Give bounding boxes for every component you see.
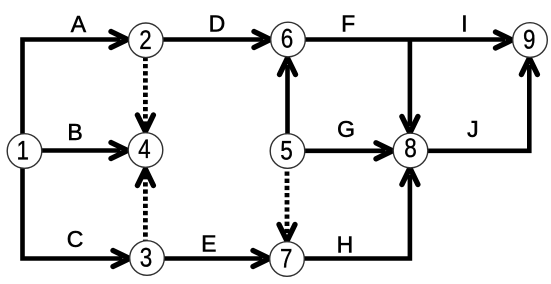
arrowhead into node 2: [111, 32, 128, 48]
svg-text:J: J: [467, 116, 479, 142]
svg-text:A: A: [71, 11, 87, 37]
svg-text:H: H: [337, 232, 354, 258]
arrowhead into node 6 bottom: [280, 58, 296, 75]
svg-text:1: 1: [16, 135, 29, 165]
svg-text:5: 5: [280, 135, 293, 165]
svg-text:E: E: [201, 231, 216, 257]
wire branch from F line down to 8: [408, 40, 413, 127]
arrowhead into node 4: [111, 143, 128, 159]
wire 1 to 4 (activity B): [40, 148, 121, 153]
dummy wire 2 to 4 (dotted): [143, 57, 148, 126]
svg-text:8: 8: [404, 133, 417, 163]
svg-text:7: 7: [280, 244, 293, 274]
arrowhead into node 4 bottom: [137, 169, 153, 186]
svg-text:2: 2: [139, 25, 152, 55]
svg-text:I: I: [461, 11, 467, 37]
node 1: [7, 134, 42, 169]
wire 6 to 9 (activities F and I): [306, 37, 506, 42]
wire 8 to 9 (activity J path, elbow right-up): [428, 65, 529, 151]
wire 3 to 7 (activity E): [165, 256, 263, 261]
arrowhead into node 8 bottom: [402, 168, 418, 185]
arrowhead into node 3: [113, 251, 130, 267]
svg-text:B: B: [67, 119, 82, 145]
arrowhead into node 8 top: [402, 117, 418, 134]
node 7: [270, 242, 305, 277]
node 3: [130, 241, 165, 276]
arrowhead into node 7 top: [279, 225, 295, 242]
arrowhead into node 9 left: [496, 32, 513, 48]
node 8: [393, 133, 428, 168]
svg-text:3: 3: [140, 242, 153, 272]
svg-text:9: 9: [523, 25, 536, 55]
node 2: [129, 23, 164, 58]
dummy wire 3 to 4 (dotted): [143, 171, 148, 244]
svg-text:G: G: [337, 116, 355, 142]
node 6: [271, 22, 306, 57]
wire 2 to 6 (activity D): [164, 37, 264, 42]
arrowhead into node 7: [253, 251, 270, 267]
svg-text:F: F: [341, 10, 355, 36]
arrowhead into node 9 bottom: [521, 58, 537, 75]
wire 7 to 8 (activity H path, elbow right-up): [305, 175, 410, 259]
arrowhead into node 8 left: [376, 143, 393, 159]
node 4: [128, 133, 163, 168]
wire 5 to 6 (vertical up): [285, 65, 290, 134]
wire 1 to 2 (activity A path, elbow up-right): [23, 40, 121, 154]
dummy wire 5 to 7 (dotted): [285, 164, 290, 233]
svg-text:6: 6: [281, 23, 294, 53]
arrowhead into node 4 top: [137, 115, 153, 132]
arrowhead into node 6: [254, 32, 271, 48]
wire 1 to 3 (activity C path, elbow down-right): [23, 149, 123, 259]
svg-text:C: C: [67, 226, 84, 252]
node 5: [270, 134, 305, 169]
svg-text:D: D: [209, 11, 226, 37]
node 9: [513, 23, 548, 58]
svg-text:4: 4: [138, 134, 151, 164]
wire 5 to 8 (activity G): [305, 149, 386, 154]
